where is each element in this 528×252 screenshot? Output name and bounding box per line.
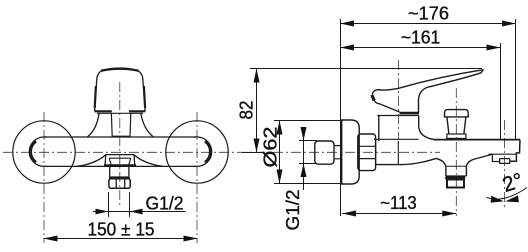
diverter knob <box>445 110 469 117</box>
outlet neck below collar <box>110 167 129 177</box>
arrow 150 left <box>44 236 58 242</box>
right circle vertical centerline <box>196 112 198 243</box>
body top line <box>374 138 419 140</box>
arrow ~176 left <box>340 21 354 27</box>
left escutcheon circle <box>13 121 75 183</box>
shower outlet funnel <box>436 158 446 166</box>
front-view valve vertical centerline <box>119 82 121 207</box>
dim ~113 line <box>342 213 456 215</box>
dim 82 line <box>256 69 258 153</box>
arrow ~113 left <box>342 211 356 217</box>
arrowheads <box>44 21 519 242</box>
horizontal axis centerline <box>3 151 440 153</box>
dim ~176 extension lines <box>341 19 516 216</box>
arrow G1/2 side bottom <box>301 164 307 178</box>
arrow Ø62 top <box>277 121 283 135</box>
shower outlet cylinder <box>446 166 467 176</box>
wall escutcheon (side) <box>341 120 359 184</box>
dim ~161 extension line <box>500 43 502 140</box>
2 deg dimension arc <box>487 188 528 200</box>
right escutcheon circle <box>166 121 228 183</box>
dim Ø62 line <box>279 121 281 184</box>
body bar top line <box>44 136 197 138</box>
arrow ~161 right <box>487 45 501 51</box>
aerator ring <box>500 159 510 164</box>
G1/2 wall connector knob <box>315 141 334 164</box>
svg-text:150 ± 15: 150 ± 15 <box>88 220 155 240</box>
svg-text:Ø62: Ø62 <box>261 127 281 168</box>
arrow 150 right <box>184 236 198 242</box>
arrow Ø62 bottom <box>277 170 283 184</box>
centerlines <box>3 60 504 243</box>
shower outlet thread <box>447 180 464 188</box>
dim G1/2 front line <box>93 211 186 213</box>
lever handle <box>372 70 483 95</box>
dim ~161 line <box>341 47 501 49</box>
body underside <box>376 158 436 164</box>
dim G1/2 front extension lines <box>109 192 130 217</box>
arrow 82 top <box>254 69 260 83</box>
dim Ø62 extension lines <box>274 121 341 184</box>
aerator housing <box>489 153 517 155</box>
spout underside right slope <box>476 154 492 158</box>
svg-text:~113: ~113 <box>380 193 417 213</box>
diverter/shower outlet vertical centerline <box>455 88 457 216</box>
shower outlet ring <box>445 176 465 179</box>
body bar right end cap <box>194 137 212 166</box>
outlet hex nut <box>109 179 130 189</box>
spout end face <box>510 140 520 162</box>
body bar bottom line <box>44 165 197 167</box>
arrow ~113 right <box>442 211 456 217</box>
arrow G1/2 front left <box>96 209 109 215</box>
body left verticals to nut <box>375 139 377 164</box>
svg-text:82: 82 <box>237 101 257 120</box>
wall coupling nut <box>358 134 376 171</box>
left circle vertical centerline <box>43 112 45 243</box>
arrow ~161 left <box>340 45 354 51</box>
body bar left end cap <box>29 137 47 166</box>
svg-text:G1/2: G1/2 <box>283 190 303 231</box>
dim 150±15 line <box>44 238 198 240</box>
arrow G1/2 side top <box>301 127 307 141</box>
bell base under dome <box>97 112 143 114</box>
arrow G1/2 front right <box>130 209 143 215</box>
spout top <box>434 139 520 141</box>
dim 82 extension lines <box>242 69 482 153</box>
arrow 82 bottom <box>254 139 260 153</box>
outlet washer ring <box>109 176 130 178</box>
svg-text:~176: ~176 <box>408 4 449 24</box>
cartridge cover dome <box>95 68 146 111</box>
lower skirt wings <box>77 155 105 167</box>
arrow 2deg left <box>491 196 504 203</box>
cartridge neck inside bell <box>111 113 130 137</box>
cartridge housing <box>379 116 419 141</box>
dimension texts <box>88 4 526 240</box>
arrow ~176 right <box>502 21 516 27</box>
dim ~176 line <box>341 23 517 25</box>
joint ring band <box>400 112 419 115</box>
svg-text:~161: ~161 <box>401 28 441 48</box>
body casting joint <box>397 141 399 165</box>
lower collar <box>106 154 134 156</box>
svg-text:G1/2: G1/2 <box>146 193 184 213</box>
side-view cartridge vertical centerline <box>398 60 400 140</box>
aerator vertical centerline <box>503 120 505 210</box>
svg-text:2°: 2° <box>500 169 526 197</box>
dim G1/2 side leader <box>299 127 317 190</box>
arrow 2deg right <box>505 195 519 202</box>
